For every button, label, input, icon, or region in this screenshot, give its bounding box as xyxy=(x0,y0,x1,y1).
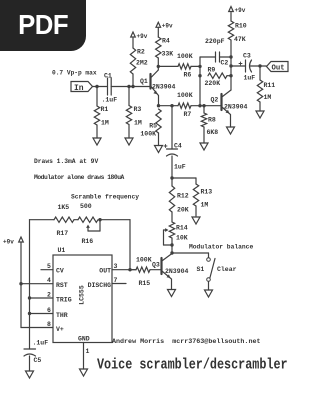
svg-text:LC555: LC555 xyxy=(79,285,86,305)
potentiometer R16 xyxy=(78,217,98,222)
svg-text:100K: 100K xyxy=(136,257,152,264)
pin 3 OUT xyxy=(112,269,136,271)
svg-text:+9v: +9v xyxy=(137,33,148,40)
svg-text:C5: C5 xyxy=(34,357,42,364)
svg-text:R2: R2 xyxy=(137,49,145,56)
capacitor C3 xyxy=(231,65,246,67)
resistor R9 xyxy=(208,73,227,78)
svg-text:S1: S1 xyxy=(197,266,205,273)
svg-text:CV: CV xyxy=(56,268,64,275)
resistor R13 xyxy=(195,178,197,184)
svg-text:220pF: 220pF xyxy=(205,38,225,45)
wire In to C1 xyxy=(93,86,108,88)
wire to R13 xyxy=(172,177,196,179)
svg-text:1M: 1M xyxy=(101,120,109,127)
svg-text:C1: C1 xyxy=(104,73,112,80)
pin 5 CV xyxy=(41,269,53,271)
node R14 wiper join xyxy=(170,243,173,246)
ground under Q2 emitter xyxy=(227,127,235,134)
svg-text:Voice scrambler/descrambler: Voice scrambler/descrambler xyxy=(97,357,288,374)
resistor R17 xyxy=(30,219,55,221)
svg-text:R3: R3 xyxy=(134,106,142,113)
capacitor C2 xyxy=(200,56,216,58)
resistor R15 xyxy=(130,269,136,271)
ground under R13 xyxy=(192,217,200,224)
pin 1 GND xyxy=(83,343,85,370)
svg-text:100K: 100K xyxy=(177,53,193,60)
node Q1 base junction xyxy=(131,85,134,88)
svg-text:OUT: OUT xyxy=(99,268,111,275)
svg-text:100K: 100K xyxy=(177,92,193,99)
label title xyxy=(97,357,288,374)
svg-text:R5: R5 xyxy=(149,123,157,130)
power +9v (R2) xyxy=(131,32,136,37)
svg-text:Draws 1.3mA at 9V: Draws 1.3mA at 9V xyxy=(34,158,98,165)
svg-text:+9v: +9v xyxy=(235,7,246,14)
node R9 left xyxy=(198,74,201,77)
svg-text:V+: V+ xyxy=(56,326,64,333)
ground under Q3 emitter xyxy=(168,290,176,297)
svg-text:+9v: +9v xyxy=(3,239,14,246)
node R6 right xyxy=(198,65,201,68)
node C4 bottom xyxy=(170,176,173,179)
node R16 out xyxy=(98,218,101,221)
svg-text:7: 7 xyxy=(114,277,118,284)
node RST rail xyxy=(19,282,22,285)
svg-text:C4: C4 xyxy=(174,143,182,150)
svg-text:5: 5 xyxy=(47,263,51,270)
ground under R3 xyxy=(125,138,133,145)
svg-text:RST: RST xyxy=(56,282,68,289)
svg-text:R17: R17 xyxy=(57,230,69,237)
svg-text:1K5: 1K5 xyxy=(58,204,70,211)
PDF badge xyxy=(0,0,86,51)
power +9v (R10) xyxy=(229,7,234,12)
ground under R11 xyxy=(256,111,264,118)
svg-text:Out: Out xyxy=(272,65,285,73)
node TRIG tap xyxy=(28,296,31,299)
op-amp U1 (LC555 timer) xyxy=(53,255,112,343)
svg-text:6K8: 6K8 xyxy=(207,129,219,136)
ground under R1 xyxy=(93,138,101,145)
node R7 right xyxy=(198,104,201,107)
svg-text:R7: R7 xyxy=(184,111,192,118)
svg-text:R13: R13 xyxy=(201,189,213,196)
svg-text:2N3904: 2N3904 xyxy=(152,84,176,91)
wire R16 to OUT pin xyxy=(100,219,130,221)
pin 4 RST xyxy=(21,283,53,285)
svg-text:1M: 1M xyxy=(264,94,272,101)
svg-text:20K: 20K xyxy=(177,207,189,214)
ground under R5 xyxy=(155,146,163,153)
svg-text:1M: 1M xyxy=(134,120,142,127)
pin 7 DISCHG xyxy=(112,283,126,285)
potentiometer R14 xyxy=(169,222,174,238)
switch S1 xyxy=(207,258,211,262)
resistor R11 xyxy=(259,66,261,80)
svg-text:R16: R16 xyxy=(82,238,94,245)
node Q1 emitter xyxy=(157,104,160,107)
power +9v (R4) xyxy=(156,22,161,27)
svg-text:33K: 33K xyxy=(162,51,174,58)
svg-text:2: 2 xyxy=(47,292,51,299)
svg-text:Q1: Q1 xyxy=(140,78,148,85)
svg-text:Modulator balance: Modulator balance xyxy=(189,244,253,251)
svg-text:R1: R1 xyxy=(101,106,109,113)
node R8 tap xyxy=(202,104,205,107)
ground under U1 xyxy=(80,369,88,376)
svg-text:Q3: Q3 xyxy=(152,262,160,269)
ground under C5 xyxy=(26,371,34,378)
node C2 right xyxy=(229,55,232,58)
svg-text:0.7 Vp-p max: 0.7 Vp-p max xyxy=(52,70,97,77)
pin 6 THR xyxy=(30,313,54,315)
capacitor C5 xyxy=(24,348,36,350)
node Out (output tag) xyxy=(267,62,289,72)
wire collector bus xyxy=(230,40,232,90)
transistor Q1 xyxy=(149,74,151,89)
svg-text:500: 500 xyxy=(80,203,92,210)
svg-text:TRIG: TRIG xyxy=(56,297,72,304)
svg-text:8: 8 xyxy=(47,321,51,328)
svg-text:1uF: 1uF xyxy=(174,164,186,171)
svg-text:R9: R9 xyxy=(208,67,216,74)
node R3 junction xyxy=(127,85,130,88)
resistor R3 xyxy=(128,87,130,106)
resistor R4 xyxy=(157,27,159,37)
node R9 right xyxy=(229,74,232,77)
svg-text:Modulator alone draws 180uA: Modulator alone draws 180uA xyxy=(34,174,125,181)
node THR tap xyxy=(28,312,31,315)
svg-text:Andrew Morris mcrr3763@bellso: Andrew Morris mcrr3763@bellsouth.net xyxy=(112,338,261,346)
svg-text:Q2: Q2 xyxy=(211,97,219,104)
wire feedback left vertical xyxy=(199,57,201,106)
ground under R8 xyxy=(200,143,208,150)
node OUT junction xyxy=(128,268,131,271)
ground under S1 xyxy=(205,290,213,297)
resistor R8 xyxy=(203,106,205,113)
node R11 tap xyxy=(258,64,261,67)
svg-text:10K: 10K xyxy=(176,235,188,242)
wire balance to S1 xyxy=(172,252,209,254)
svg-text:47K: 47K xyxy=(234,36,246,43)
node Q1 collector xyxy=(157,65,160,68)
svg-text:Scramble frequency: Scramble frequency xyxy=(71,194,139,201)
node In (input tag) xyxy=(71,82,93,92)
svg-text:3: 3 xyxy=(114,263,118,270)
pin 8 V+ xyxy=(21,327,53,329)
wire R17 drop xyxy=(29,220,31,349)
svg-text:R6: R6 xyxy=(184,72,192,79)
resistor R1 xyxy=(96,87,98,107)
resistor R10 xyxy=(230,13,232,22)
svg-text:R11: R11 xyxy=(264,82,276,89)
svg-text:Clear: Clear xyxy=(217,266,237,273)
svg-text:1uF: 1uF xyxy=(244,75,256,82)
svg-text:+9v: +9v xyxy=(162,23,173,30)
svg-text:220K: 220K xyxy=(205,80,221,87)
svg-text:1M: 1M xyxy=(201,202,209,209)
svg-text:2N3904: 2N3904 xyxy=(224,103,248,110)
svg-text:100K: 100K xyxy=(140,131,156,138)
capacitor C1 xyxy=(107,78,109,95)
svg-text:R15: R15 xyxy=(139,280,151,287)
svg-text:THR: THR xyxy=(56,312,68,319)
svg-text:2M2: 2M2 xyxy=(136,60,148,67)
svg-text:R12: R12 xyxy=(177,193,189,200)
pin 2 TRIG xyxy=(30,297,54,299)
wire emitter row xyxy=(159,105,179,107)
svg-text:R10: R10 xyxy=(235,23,247,30)
resistor R6 xyxy=(158,65,178,67)
svg-text:4: 4 xyxy=(47,277,51,284)
svg-text:C3: C3 xyxy=(243,53,251,60)
resistor R7 xyxy=(178,103,191,108)
node modulator balance xyxy=(170,251,173,254)
svg-text:DISCHG: DISCHG xyxy=(88,282,112,289)
svg-text:R4: R4 xyxy=(162,38,170,45)
svg-text:GND: GND xyxy=(78,336,90,343)
wire C1 to Q1 base xyxy=(111,86,150,88)
svg-text:R14: R14 xyxy=(176,225,188,232)
power +9v (U1) xyxy=(19,237,24,242)
svg-text:U1: U1 xyxy=(58,247,66,254)
node out row xyxy=(229,64,232,67)
svg-text:.1uF: .1uF xyxy=(33,340,49,347)
capacitor C4 xyxy=(171,106,173,149)
node input junction xyxy=(95,85,98,88)
svg-text:In: In xyxy=(74,84,84,93)
svg-text:6: 6 xyxy=(47,307,51,314)
transistor Q2 xyxy=(220,94,222,110)
svg-text:.1uF: .1uF xyxy=(102,97,118,104)
resistor R2 xyxy=(132,38,134,48)
svg-text:C2: C2 xyxy=(221,60,229,67)
transistor Q3 xyxy=(160,258,162,274)
svg-text:R8: R8 xyxy=(208,117,216,124)
resistor R5 xyxy=(156,109,161,133)
svg-text:2N3904: 2N3904 xyxy=(165,268,189,275)
svg-text:1: 1 xyxy=(86,348,90,355)
wire +9v rail xyxy=(20,243,22,328)
node C4 tap xyxy=(170,104,173,107)
resistor R12 xyxy=(171,178,173,186)
